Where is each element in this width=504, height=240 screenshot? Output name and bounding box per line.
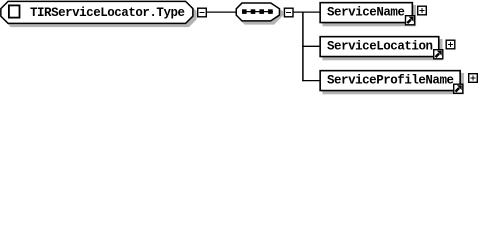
sequence dot 4: [268, 9, 273, 14]
svg-text:ServiceLocation: ServiceLocation: [327, 40, 433, 54]
element ServiceProfileName shadow: [322, 73, 464, 94]
wire from sequence minus box to ServiceName row: [293, 11, 320, 13]
minus box after sequence: [284, 8, 293, 17]
svg-text:ServiceName: ServiceName: [327, 6, 405, 20]
complexType icon square: [9, 5, 20, 17]
sequence compositor shadow: [239, 6, 282, 24]
plus box for ServiceProfileName: [469, 74, 478, 83]
element ServiceProfileName box: [320, 71, 460, 91]
sequence compositor body: [236, 3, 279, 21]
element ServiceLocation reference arrow icon: [434, 50, 443, 59]
element ServiceName shadow: [322, 5, 416, 26]
element ServiceLocation box: [320, 37, 439, 57]
sequence dot 2: [251, 9, 256, 14]
sequence dots line: [242, 11, 273, 13]
minus box after complexType: [198, 8, 207, 17]
sequence dot 3: [259, 9, 264, 14]
element ServiceName reference arrow icon: [406, 16, 415, 25]
wire branch to ServiceProfileName: [302, 80, 320, 82]
wire vertical trunk: [302, 12, 304, 82]
wire from complexType minus box to sequence: [206, 11, 237, 13]
plus box for ServiceName: [418, 6, 427, 15]
svg-text:ServiceProfileName: ServiceProfileName: [327, 74, 454, 88]
complexType TIRServiceLocator.Type body: [1, 1, 193, 23]
element ServiceProfileName reference arrow icon: [454, 84, 463, 93]
element ServiceName box: [320, 3, 412, 23]
element ServiceLocation shadow: [322, 39, 442, 60]
sequence dot 1: [242, 9, 247, 14]
svg-text:TIRServiceLocator.Type: TIRServiceLocator.Type: [30, 6, 185, 20]
wire branch to ServiceLocation: [302, 45, 320, 47]
complexType TIRServiceLocator.Type shadow: [4, 4, 196, 26]
plus box for ServiceLocation: [446, 40, 455, 49]
